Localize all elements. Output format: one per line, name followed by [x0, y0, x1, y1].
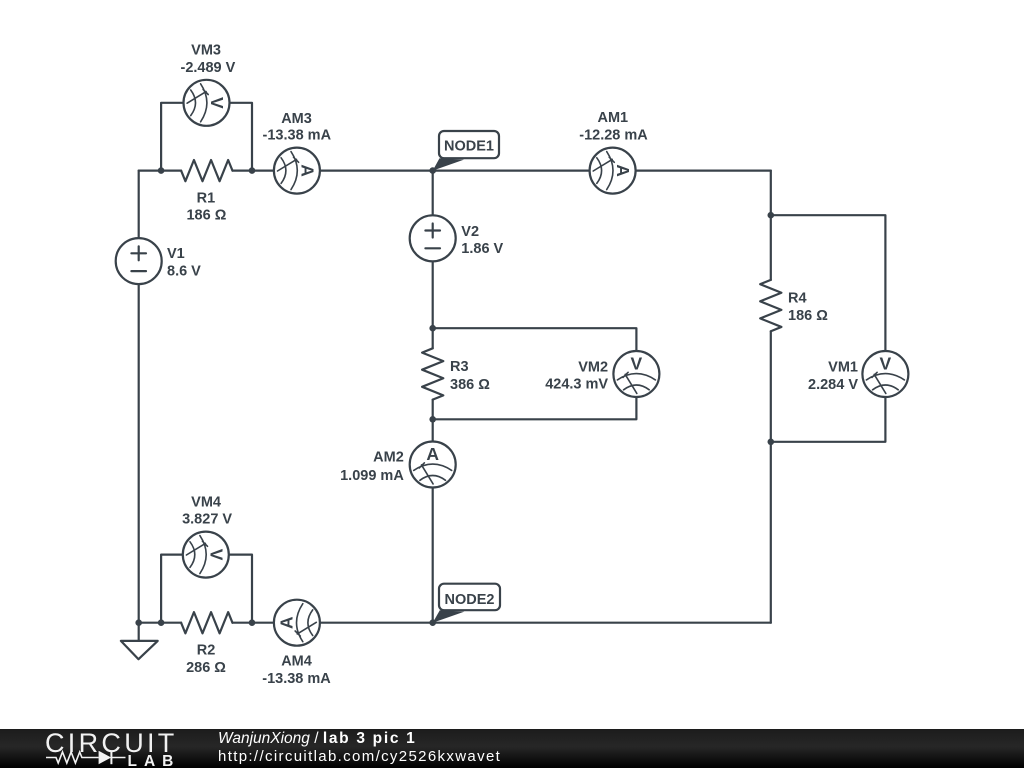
ammeter AM4 [274, 600, 320, 646]
ammeter AM1 [590, 148, 636, 194]
node junction R2 right [249, 619, 256, 626]
svg-text:AM2: AM2 [373, 450, 404, 466]
svg-text:AM4: AM4 [281, 654, 312, 670]
wire bottom horizontal [139, 622, 771, 624]
svg-text:R2: R2 [197, 643, 216, 659]
resistor R1 [181, 160, 232, 181]
wire middle vertical [432, 171, 434, 623]
voltage source V2 [410, 215, 456, 261]
svg-text:R3: R3 [450, 359, 469, 375]
node junction R1 right [249, 167, 256, 174]
footer bar [0, 729, 1024, 768]
wire top horizontal [139, 170, 771, 172]
node NODE2 junction [429, 619, 436, 626]
node junction R1 left [158, 167, 165, 174]
wire VM4 loop [161, 555, 252, 623]
svg-text:A: A [426, 444, 439, 464]
svg-text:VM2: VM2 [578, 360, 608, 376]
svg-text:V: V [631, 354, 643, 374]
svg-text:V2: V2 [461, 224, 479, 240]
svg-text:1.099 mA: 1.099 mA [340, 468, 404, 484]
node junction ground [135, 619, 142, 626]
footer author/title [218, 730, 417, 748]
voltmeter VM3 [184, 80, 230, 126]
svg-text:-13.38 mA: -13.38 mA [263, 128, 332, 144]
wire VM1 loop [771, 215, 886, 442]
svg-text:VM1: VM1 [828, 360, 858, 376]
node junction R3 top [429, 325, 436, 332]
wire VM3 loop [161, 103, 252, 171]
voltmeter VM1 [862, 351, 908, 397]
svg-text:V: V [206, 549, 226, 561]
svg-text:AM3: AM3 [281, 111, 312, 127]
wire VM2 loop [433, 328, 637, 419]
svg-text:424.3 mV: 424.3 mV [545, 376, 608, 392]
resistor R3 [422, 348, 443, 399]
svg-text:3.827 V: 3.827 V [182, 512, 232, 528]
svg-text:LAB: LAB [128, 753, 181, 768]
voltage source V1 [116, 238, 162, 284]
svg-text:R4: R4 [788, 291, 807, 307]
svg-text:AM1: AM1 [597, 110, 628, 126]
svg-text:186 Ω: 186 Ω [186, 208, 226, 224]
node junction R2 left [158, 619, 165, 626]
node junction R4 bottom [768, 439, 775, 446]
footer url [218, 748, 501, 765]
svg-text:NODE1: NODE1 [444, 139, 494, 155]
ground [121, 641, 158, 659]
svg-text:R1: R1 [197, 190, 216, 206]
CircuitLab logo [0, 729, 200, 768]
ammeter AM2 [410, 442, 456, 488]
resistor R4 [760, 280, 781, 331]
svg-text:186 Ω: 186 Ω [788, 308, 828, 324]
svg-text:VM3: VM3 [191, 43, 221, 59]
svg-text:VM4: VM4 [191, 495, 221, 511]
svg-text:NODE2: NODE2 [445, 592, 495, 608]
wire left vertical [138, 171, 140, 623]
node junction R3 bottom [429, 416, 436, 423]
svg-text:A: A [297, 164, 317, 177]
svg-text:386 Ω: 386 Ω [450, 377, 490, 393]
svg-text:-2.489 V: -2.489 V [180, 60, 235, 76]
svg-text:-12.28 mA: -12.28 mA [579, 127, 648, 143]
svg-text:V1: V1 [167, 246, 185, 262]
node label NODE1 [433, 131, 499, 171]
svg-text:V: V [207, 97, 227, 109]
node label NODE2 [433, 584, 500, 623]
node junction R4 top [768, 212, 775, 219]
svg-text:V: V [880, 354, 892, 374]
svg-text:-13.38 mA: -13.38 mA [262, 671, 331, 687]
svg-text:1.86 V: 1.86 V [461, 241, 503, 257]
wire right vertical [770, 171, 772, 623]
voltmeter VM2 [613, 351, 659, 397]
svg-text:286 Ω: 286 Ω [186, 660, 226, 676]
ammeter AM3 [274, 148, 320, 194]
svg-text:A: A [613, 164, 633, 177]
node NODE1 junction [429, 167, 436, 174]
wire ground stub [138, 623, 140, 641]
svg-text:8.6 V: 8.6 V [167, 264, 201, 280]
resistor R2 [181, 612, 232, 633]
svg-text:2.284 V: 2.284 V [808, 377, 858, 393]
svg-text:A: A [276, 616, 296, 629]
voltmeter VM4 [183, 532, 229, 578]
